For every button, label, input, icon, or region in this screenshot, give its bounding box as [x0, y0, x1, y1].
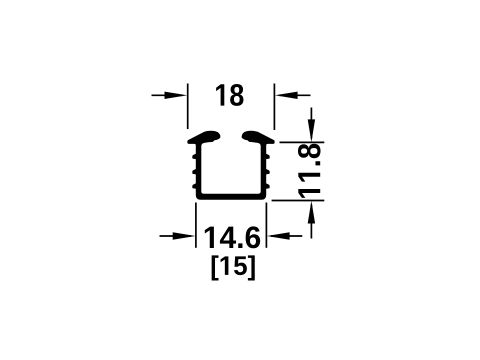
dimension 18 right arrow tail: [279, 94, 311, 96]
extension line top of dimension 11.8: [280, 141, 325, 143]
dimension 18 left arrow tail: [152, 94, 184, 96]
dimension 11.8 bottom arrowhead (pointing up): [308, 201, 315, 224]
dimension 11.8 bottom arrow tail: [310, 205, 312, 239]
dimension text [15]: [212, 255, 255, 280]
profile U-channel body (left half: flange, hook, wall with barbs, half bottom): [187, 131, 231, 200]
dimension 11.8 top arrow tail: [310, 108, 312, 139]
dimension text 14.6: [205, 226, 260, 248]
dimension 14.6 right arrowhead: [267, 232, 290, 240]
dimension 14.6 right arrow tail: [271, 235, 302, 237]
dimension 11.8 top arrowhead (pointing down): [308, 119, 315, 142]
extension line right of dimension 18: [273, 84, 275, 131]
extension line left of dimension 14.6: [195, 203, 197, 248]
extension line left of dimension 18: [187, 84, 189, 130]
extension line right of dimension 14.6: [265, 203, 267, 248]
extension line bottom of dimension 11.8: [272, 200, 325, 202]
dimension text 11.8: [298, 144, 321, 198]
profile U-channel body (right half, mirrored): [231, 131, 275, 200]
dimension 18 right arrowhead: [275, 92, 298, 99]
dimension 14.6 left arrow tail: [160, 235, 192, 237]
dimension 18 left arrowhead: [165, 92, 188, 99]
dimension 14.6 left arrowhead: [173, 232, 196, 240]
dimension text 18: [216, 84, 243, 106]
